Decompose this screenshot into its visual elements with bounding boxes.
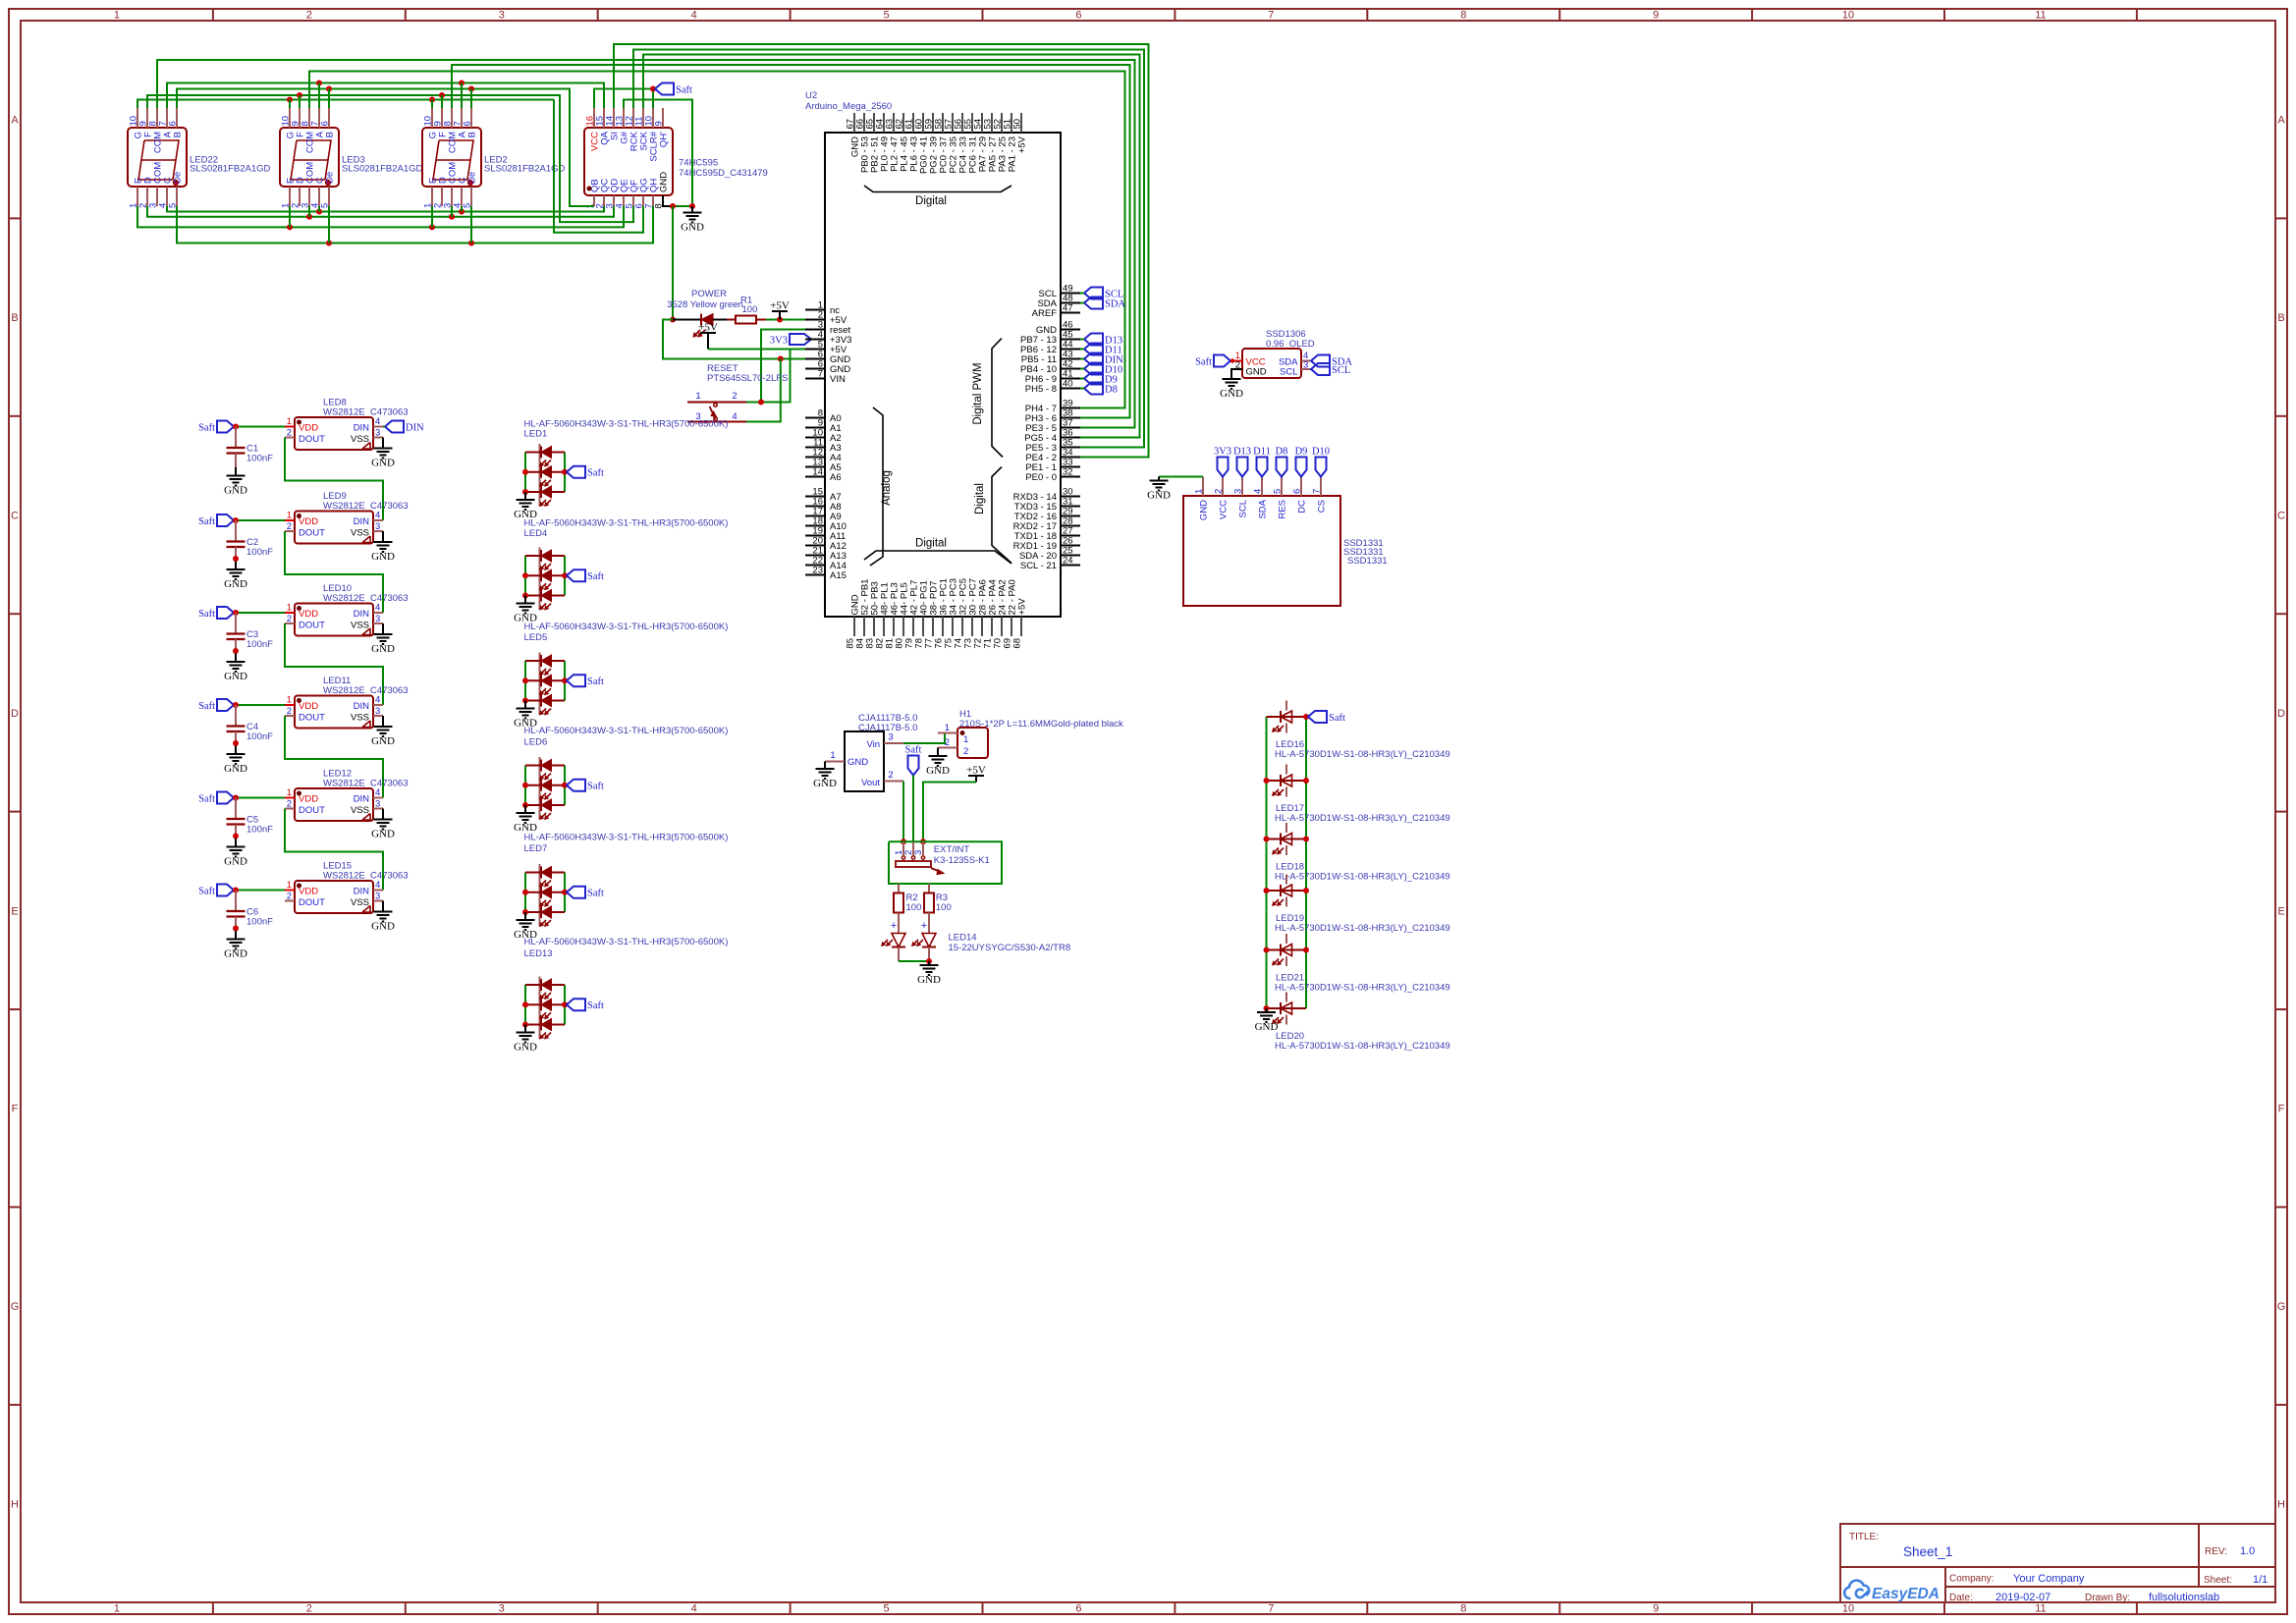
svg-text:F: F [12, 1104, 19, 1115]
U2 bottom pin 73 [971, 617, 973, 636]
wire LED6 cathode rail [564, 766, 566, 806]
svg-text:Saft: Saft [587, 889, 604, 899]
junction C4 [233, 702, 239, 708]
svg-text:1: 1 [287, 787, 292, 798]
7-segment display LED3 [280, 128, 339, 187]
U2 right pin 49 (SCL) [1061, 293, 1080, 295]
U2 Digital PWM bracket [992, 339, 1003, 458]
U2 bottom pin 75 [952, 617, 954, 636]
U2 right pin 33 (PE1 - 1) [1061, 466, 1080, 468]
junction C5 [233, 795, 239, 801]
capacitor C3 100nF [235, 613, 237, 634]
svg-text:5: 5 [883, 10, 889, 22]
svg-text:DOUT: DOUT [299, 805, 325, 816]
svg-text:7: 7 [1312, 489, 1323, 494]
wire EXT/INT select box [889, 841, 1002, 884]
74HC595 pin 14 (SI) [613, 108, 615, 128]
svg-text:Digital: Digital [915, 538, 947, 550]
EasyEDA logo [1844, 1581, 1869, 1598]
net flag SCL (SSD1306) [1311, 363, 1330, 375]
wire LED5 anode rail [524, 661, 526, 701]
wire Vout to switch pin1 [902, 782, 904, 842]
junction switch pin3 [920, 839, 926, 844]
LED6 pin line [539, 757, 541, 820]
junction LED4 rail a [522, 572, 528, 578]
U2 left pin 7 (VIN) [805, 378, 825, 380]
junction LED19 anode [1264, 888, 1270, 893]
svg-text:Company:: Company: [1949, 1574, 1995, 1585]
svg-text:DIN: DIN [354, 609, 370, 620]
net flag Saft (LED15) [217, 885, 234, 896]
svg-text:2019-02-07: 2019-02-07 [1995, 1592, 2050, 1603]
power +5V (second) [707, 333, 709, 350]
wire +5V feed down to POWER row [672, 206, 674, 320]
LED1 diode 3 [525, 491, 565, 493]
LED LED19 HL-A-5730D1W [1267, 890, 1307, 892]
LED10 pin 3 VSS [373, 622, 383, 624]
LED8 pin 4 DIN [373, 426, 383, 428]
svg-text:VSS: VSS [351, 434, 369, 445]
K3 switch pin 3 [922, 841, 924, 855]
LED2 pin 4 (C) [461, 187, 463, 206]
wire reset to Arduino pin3 [761, 330, 805, 403]
U2 bottom pin 71 [991, 617, 993, 636]
74HC595 pin 7 (QH) [652, 195, 654, 206]
wire LED2 pin7 stub riser [461, 83, 463, 109]
wire LED3 pin6 riser [328, 89, 330, 109]
wire LED7 anode rail [524, 873, 526, 913]
svg-text:D8: D8 [1105, 384, 1118, 395]
U2 bottom pin 79 [912, 617, 914, 636]
svg-text:D11: D11 [1253, 447, 1271, 458]
junction LED17 cathode [1303, 778, 1309, 784]
svg-text:11: 11 [2035, 10, 2046, 22]
svg-text:1: 1 [963, 734, 968, 745]
U2 top pin 66 [863, 113, 865, 133]
ground LED11 [374, 726, 393, 728]
svg-text:100nF: 100nF [246, 454, 273, 464]
svg-text:GND: GND [1255, 1021, 1279, 1033]
svg-text:DOUT: DOUT [299, 434, 325, 445]
junction DP net LED2 [468, 241, 474, 246]
wire LED3 pin3 drop [308, 206, 310, 217]
SSD1331 pin 4 (SDA) [1261, 477, 1263, 497]
74HC595 pin 13 (G#) [623, 108, 625, 128]
svg-text:2: 2 [287, 428, 292, 439]
svg-text:Saft: Saft [587, 1001, 604, 1011]
ground LED9 [374, 541, 393, 543]
svg-text:SCL - 21: SCL - 21 [1020, 561, 1057, 571]
svg-text:HL-AF-5060H343W-3-S1-THL-HR3(5: HL-AF-5060H343W-3-S1-THL-HR3(5700-6500K) [524, 622, 729, 632]
LED2 decimal point [467, 180, 472, 185]
svg-text:HL-A-5730D1W-S1-08-HR3(LY)_C21: HL-A-5730D1W-S1-08-HR3(LY)_C210349 [1275, 1041, 1450, 1052]
svg-text:SCL: SCL [1280, 367, 1297, 378]
wire QG link [554, 100, 643, 233]
LED22 pin 7 (A) [166, 108, 168, 128]
svg-text:1: 1 [287, 603, 292, 614]
svg-text:De: De [467, 172, 478, 184]
net flag Saft (LED8) [217, 421, 234, 433]
wire LED14 cathodes [899, 960, 929, 962]
SSD1331 pin 5 (RES) [1281, 477, 1283, 497]
wire LED9 VSS to ground [382, 531, 384, 542]
svg-text:VDD: VDD [299, 609, 318, 620]
svg-text:+5V: +5V [966, 765, 986, 777]
svg-text:15-22UYSYGC/S530-A2/TR8: 15-22UYSYGC/S530-A2/TR8 [949, 943, 1071, 953]
svg-text:H: H [11, 1499, 19, 1511]
U2 bottom pin 77 [932, 617, 934, 636]
svg-text:GND: GND [1199, 500, 1210, 520]
U2 left pin 21 (A13) [805, 555, 825, 557]
svg-text:3: 3 [375, 521, 380, 532]
junction C3 ground [233, 648, 239, 654]
svg-text:40: 40 [1063, 379, 1073, 390]
junction SSD1306 VCC [1230, 358, 1234, 362]
LED9 pin 4 DIN [373, 519, 383, 521]
LED11 pin 2 DOUT [285, 715, 295, 717]
junction +5V pin2 [777, 317, 783, 323]
svg-text:GND: GND [514, 1042, 537, 1054]
svg-text:VSS: VSS [351, 897, 369, 908]
U2 top pin 62 [902, 113, 904, 133]
svg-text:VDD: VDD [299, 423, 318, 434]
svg-text:VCC: VCC [1219, 500, 1230, 519]
U2 top pin 56 [961, 113, 963, 133]
svg-text:HL-A-5730D1W-S1-08-HR3(LY)_C21: HL-A-5730D1W-S1-08-HR3(LY)_C210349 [1275, 749, 1450, 760]
U2 bottom pin 69 [1011, 617, 1012, 636]
U2 left pin 20 (A12) [805, 545, 825, 547]
svg-text:GND: GND [917, 974, 941, 986]
U2 left pin 10 (A2) [805, 437, 825, 439]
svg-text:Saft: Saft [905, 745, 922, 756]
svg-text:PE0 - 0: PE0 - 0 [1025, 472, 1057, 483]
LED22 pin 2 (D) [146, 187, 148, 206]
svg-text:3: 3 [375, 428, 380, 439]
svg-text:+: + [921, 920, 927, 932]
wire LED2 pin5 drop [470, 206, 472, 243]
ground LED10 [374, 633, 393, 635]
LED9 pin 3 VSS [373, 530, 383, 532]
svg-text:HL-A-5730D1W-S1-08-HR3(LY)_C21: HL-A-5730D1W-S1-08-HR3(LY)_C210349 [1275, 923, 1450, 934]
LED15 pin 3 VSS [373, 900, 383, 902]
wire COM1 net (LED22 pin8 to Arduino pin37) [157, 60, 1135, 428]
svg-text:1: 1 [114, 10, 120, 22]
svg-text:4: 4 [375, 511, 380, 521]
junction DP net LED3 [326, 241, 332, 246]
svg-text:C: C [2277, 511, 2285, 522]
K3 switch slider [896, 861, 931, 867]
SSD1331 pin 3 (SCL) [1241, 477, 1243, 497]
net flag SDA (U2) [1084, 298, 1103, 309]
net flag D13 (U2) [1084, 334, 1103, 346]
LED LED16 HL-A-5730D1W [1267, 716, 1307, 718]
wire switch bottom bar to GND row [746, 359, 781, 422]
K3 switch pin 2 [912, 841, 914, 855]
wire Saft to LED9 VDD [234, 519, 285, 521]
ground LED14 [928, 961, 930, 965]
svg-text:D: D [2277, 708, 2285, 720]
net flag D11 (SSD1331) [1257, 458, 1268, 477]
svg-text:100nF: 100nF [246, 547, 273, 558]
junction LED1 Saft [562, 469, 568, 475]
svg-text:DIN: DIN [354, 516, 370, 527]
LED15 pin 2 DOUT [285, 900, 295, 902]
ground LED13 [524, 1025, 526, 1033]
wire LED1 cathode rail [564, 453, 566, 493]
U2 top pin 65 [873, 113, 875, 133]
svg-text:GND: GND [224, 948, 247, 960]
LED2 pin 5 (De) [470, 187, 472, 206]
svg-text:Saft: Saft [587, 782, 604, 792]
svg-text:Saft: Saft [198, 516, 215, 527]
U2 top pin 64 [883, 113, 885, 133]
wire LED1 anode rail [524, 453, 526, 493]
svg-text:CS: CS [1317, 500, 1328, 513]
junction C net LED3 [316, 209, 322, 215]
svg-text:B: B [467, 132, 478, 137]
74HC595 pin 15 (QA) [603, 108, 605, 128]
junction LED17 anode [1264, 778, 1270, 784]
junction D net LED3 [306, 214, 312, 220]
junction LED18 cathode [1303, 837, 1309, 842]
svg-text:SLS0281FB2A1GD: SLS0281FB2A1GD [190, 164, 271, 175]
svg-text:14: 14 [812, 467, 823, 478]
wire SCLR# riser [652, 89, 654, 109]
wire SCK net (595 pin11 to Arduino pin36) [643, 55, 1140, 438]
wire POWER LED anode [673, 319, 701, 321]
net flag D10 (U2) [1084, 363, 1103, 375]
svg-text:74HC595: 74HC595 [679, 158, 718, 169]
svg-text:+: + [891, 920, 897, 932]
junction E net LED2 [429, 224, 435, 230]
svg-text:QH': QH' [659, 132, 670, 147]
svg-text:Digital: Digital [974, 483, 986, 514]
svg-text:1: 1 [287, 416, 292, 427]
POWER LED arrows [693, 330, 700, 337]
power +5V (H1) [968, 775, 984, 777]
shift register U 74HC595 [584, 128, 673, 195]
svg-text:GND: GND [371, 829, 395, 840]
74HC595 pin 2 (QC) [603, 195, 605, 206]
ground C1 [235, 467, 237, 476]
wire LED2 pin6 riser [470, 89, 472, 109]
U2 left pin 2 (+5V) [805, 319, 825, 321]
svg-text:7: 7 [818, 369, 823, 380]
U2 right pin 34 (PE4 - 2) [1061, 457, 1080, 459]
U2 left pin 19 (A11) [805, 535, 825, 537]
svg-text:100nF: 100nF [246, 825, 273, 836]
wire LED7 cathode rail [564, 873, 566, 913]
display SSD1331 [1183, 496, 1340, 606]
U2 right pin 44 (PB6 - 12) [1061, 349, 1080, 351]
svg-text:GND: GND [224, 578, 247, 590]
svg-text:LED1: LED1 [524, 428, 548, 439]
H1 pin 2 [938, 747, 957, 749]
wire RCK net (595 pin12 to Arduino pin35) [633, 50, 1144, 448]
U2 right pin 39 (PH4 - 7) [1061, 407, 1080, 409]
U2 top pin 51 [1011, 113, 1012, 133]
svg-text:G: G [11, 1301, 20, 1313]
LED6 diode 2 [525, 784, 565, 786]
net flag D11 (U2) [1084, 344, 1103, 355]
svg-text:3: 3 [499, 1603, 505, 1615]
net flag Saft (LED4) [567, 569, 585, 581]
svg-text:3: 3 [375, 892, 380, 902]
svg-text:Drawn By:: Drawn By: [2085, 1593, 2130, 1603]
LED10 pin 4 DIN [373, 612, 383, 614]
svg-text:4: 4 [732, 411, 737, 422]
resistor R1 [727, 319, 736, 321]
wire LED11 DOUT cascade [285, 716, 383, 798]
LED22 pin 10 (G) [137, 108, 138, 128]
LED11 pin 3 VSS [373, 715, 383, 717]
wire LED12 VSS to ground [382, 809, 384, 820]
wire Saft to LED12 VDD [234, 797, 285, 799]
LED22 pin 8 (COM) [156, 108, 158, 128]
svg-text:50: 50 [1012, 119, 1023, 130]
LED10 pin 2 DOUT [285, 622, 295, 624]
LED LED21 HL-A-5730D1W [1267, 949, 1307, 951]
svg-text:68: 68 [1012, 638, 1023, 649]
LED1 pin line [539, 444, 541, 507]
svg-text:1: 1 [287, 695, 292, 706]
svg-text:H: H [2277, 1499, 2285, 1511]
U2 Analog bracket [870, 407, 883, 566]
svg-text:8: 8 [1460, 1603, 1466, 1615]
wire LED3 pin10 riser [289, 100, 291, 109]
svg-text:GND: GND [371, 551, 395, 563]
wire LED3 pin1 drop [289, 206, 291, 227]
svg-text:Digital: Digital [915, 195, 947, 207]
LED6 diode 3 [525, 804, 565, 806]
junction LED4 rail b [522, 593, 528, 599]
svg-text:DOUT: DOUT [299, 897, 325, 908]
svg-text:GND: GND [371, 643, 395, 655]
svg-text:3: 3 [375, 799, 380, 810]
net flag D10 (SSD1331) [1316, 458, 1327, 477]
svg-text:HL-AF-5060H343W-3-S1-THL-HR3(5: HL-AF-5060H343W-3-S1-THL-HR3(5700-6500K) [524, 726, 729, 736]
svg-text:2: 2 [287, 521, 292, 532]
svg-text:2: 2 [963, 746, 968, 757]
svg-text:E: E [11, 905, 18, 917]
svg-text:Arduino_Mega_2560: Arduino_Mega_2560 [805, 101, 892, 112]
U2 bottom pin 85 [853, 617, 855, 636]
LED2 pin 10 (G) [431, 108, 433, 128]
wire G# to ground [624, 100, 692, 207]
LED4 diode 1 [525, 555, 565, 557]
svg-text:VDD: VDD [299, 887, 318, 897]
LED9 pin 1 VDD [285, 519, 295, 521]
LED3 decimal point [325, 180, 330, 185]
svg-text:Sheet:: Sheet: [2204, 1575, 2232, 1586]
wire LED3 pin9 riser [299, 95, 301, 108]
74HC595 pin 5 (QF) [632, 195, 634, 206]
svg-text:4: 4 [375, 603, 380, 614]
svg-text:4: 4 [691, 1603, 697, 1615]
svg-text:Saft: Saft [198, 701, 215, 712]
svg-text:DIN: DIN [354, 423, 370, 434]
U2 bottom pin 68 [1020, 617, 1022, 636]
LED2 pin 3 (COM) [451, 187, 453, 206]
svg-text:4: 4 [1253, 489, 1264, 494]
svg-text:WS2812E_C473063: WS2812E_C473063 [323, 871, 409, 882]
svg-text:+5V: +5V [770, 300, 790, 312]
svg-text:100: 100 [936, 902, 952, 913]
U2 left pin 9 (A1) [805, 427, 825, 429]
wire LED3 pin4 drop [318, 206, 320, 212]
wire segment DP net (QH) [177, 206, 653, 243]
SSD1331 pin 1 (GND) [1202, 477, 1204, 497]
U2 right pin 45 (PB7 - 13) [1061, 339, 1080, 341]
svg-text:VSS: VSS [351, 528, 369, 539]
ground C5 [235, 839, 237, 847]
U2 bottom pin 84 [863, 617, 865, 636]
svg-text:WS2812E_C473063: WS2812E_C473063 [323, 685, 409, 696]
junction LED14 ground [926, 958, 932, 964]
svg-text:GND: GND [224, 856, 247, 868]
junction C2 [233, 517, 239, 523]
svg-text:D9: D9 [1295, 447, 1308, 458]
svg-text:fullsolutionslab: fullsolutionslab [2149, 1592, 2219, 1603]
net flag SDA (SSD1306) [1311, 355, 1330, 367]
U2 left pin 3 (reset) [805, 329, 825, 331]
junction switch top bar [758, 400, 764, 406]
LED11 pin 4 DIN [373, 704, 383, 706]
junction C1 [233, 424, 239, 430]
U2 right pin 48 (SDA) [1061, 302, 1080, 304]
wire LED10 DOUT cascade [285, 623, 383, 705]
svg-text:9: 9 [654, 121, 665, 126]
LED22 pin 4 (C) [166, 187, 168, 206]
7-segment display LED2 [422, 128, 481, 187]
U2 bottom pin 82 [883, 617, 885, 636]
svg-text:F: F [2278, 1104, 2285, 1115]
svg-text:Saft: Saft [587, 676, 604, 687]
74HC595 pin 11 (SCK) [642, 108, 644, 128]
wire LED2 pin3 drop [451, 206, 453, 217]
LED5 pin line [539, 653, 541, 716]
svg-text:GND: GND [371, 921, 395, 933]
SSD1306 pin 3 SCL [1301, 368, 1311, 370]
LED13 diode 2 [525, 1003, 565, 1005]
svg-text:DOUT: DOUT [299, 528, 325, 539]
svg-text:LED5: LED5 [524, 632, 548, 643]
svg-text:VSS: VSS [351, 713, 369, 724]
svg-text:3: 3 [913, 850, 924, 855]
diode POWER LED 3528 [700, 314, 702, 326]
svg-text:5: 5 [883, 1603, 889, 1615]
U2 right pin 24 (SCL - 21) [1061, 565, 1080, 567]
LED22 pin 3 (COM) [156, 187, 158, 206]
junction C6 [233, 888, 239, 893]
svg-text:100: 100 [906, 902, 922, 913]
svg-text:B: B [11, 312, 18, 324]
svg-text:SSD1331: SSD1331 [1347, 556, 1388, 567]
wire LED2 pin4 drop [461, 206, 463, 212]
U2 left pin 8 (A0) [805, 417, 825, 419]
svg-text:VSS: VSS [351, 805, 369, 816]
svg-text:Digital PWM: Digital PWM [972, 362, 984, 424]
wire R1 to +5V and Arduino pin2 [766, 319, 805, 321]
wire segment D net (QD) [147, 206, 614, 217]
svg-text:1: 1 [1194, 489, 1205, 494]
junction GND 595 a [670, 203, 676, 209]
net flag Saft (LED6) [567, 780, 585, 791]
net flag 3V3 (SSD1331) [1218, 458, 1229, 477]
wire Saft net to 595 VCC and SCLR# [594, 89, 653, 109]
net flag D13 (SSD1331) [1237, 458, 1248, 477]
svg-text:2: 2 [1235, 360, 1240, 371]
